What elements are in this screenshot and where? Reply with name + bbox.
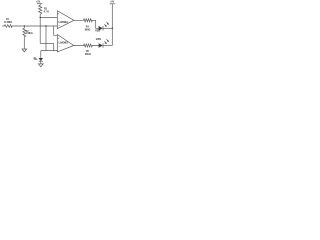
svg-text:LM393: LM393: [59, 41, 69, 45]
svg-text:+5V: +5V: [36, 1, 41, 3]
svg-text:860Ω: 860Ω: [85, 54, 91, 56]
svg-text:1 MEG: 1 MEG: [26, 33, 33, 35]
svg-text:860Ω: 860Ω: [85, 29, 91, 31]
svg-text:RED: RED: [95, 30, 100, 32]
svg-text:+5V: +5V: [110, 1, 115, 3]
svg-text:10 MEG: 10 MEG: [4, 22, 13, 24]
svg-text:GRN: GRN: [96, 39, 101, 41]
svg-text:4.7 K: 4.7 K: [44, 10, 50, 13]
svg-text:LM393: LM393: [59, 20, 69, 24]
